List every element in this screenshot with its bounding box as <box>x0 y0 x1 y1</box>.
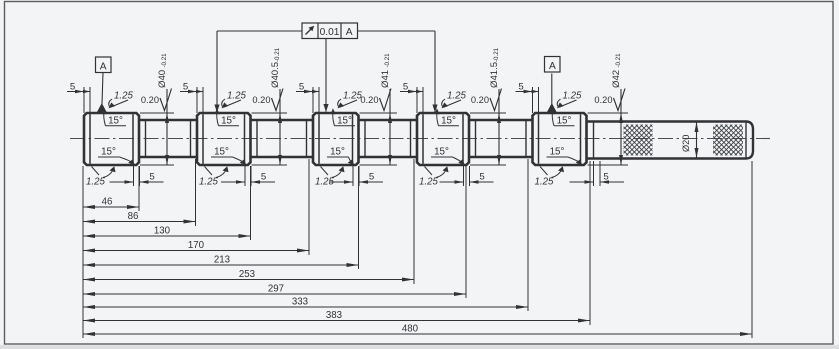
svg-text:1.25: 1.25 <box>535 177 554 188</box>
svg-text:Ø20: Ø20 <box>681 135 691 152</box>
svg-text:Ø41.5: Ø41.5 <box>489 62 500 88</box>
svg-text:297: 297 <box>268 284 284 295</box>
datum A frame (right) <box>545 57 561 73</box>
svg-text:0.20: 0.20 <box>252 95 270 105</box>
datum A filled triangle on journal 5 <box>547 103 557 112</box>
svg-text:Ø42: Ø42 <box>611 70 622 88</box>
svg-text:0.20: 0.20 <box>141 95 159 105</box>
svg-text:480: 480 <box>402 324 419 335</box>
svg-text:15°: 15° <box>214 147 229 158</box>
svg-text:253: 253 <box>239 269 255 280</box>
svg-text:5: 5 <box>403 82 408 93</box>
length dimension 333 <box>83 306 528 308</box>
journal 3 (bearing block) <box>313 113 359 165</box>
svg-text:-0.21: -0.21 <box>274 47 281 62</box>
svg-text:0.20: 0.20 <box>594 95 612 105</box>
chamfer length dim 5 at right of journal 3 <box>352 166 354 186</box>
journal 1 (bearing block) <box>84 113 139 165</box>
chamfer length dim 5 at right of journal 5 <box>593 161 595 186</box>
svg-text:5: 5 <box>299 82 304 93</box>
diameter label for journal 1 <box>157 53 168 88</box>
svg-text:-0.21: -0.21 <box>615 53 622 68</box>
chamfer length dim 5 at left of journal 1 <box>83 87 85 113</box>
diameter dimension line for journal 4 <box>470 112 506 114</box>
journal 4 (bearing block) <box>417 113 469 165</box>
svg-text:1.25: 1.25 <box>315 177 334 188</box>
diameter 20 dimension line <box>696 122 698 158</box>
svg-text:5: 5 <box>479 172 484 183</box>
diameter dimension line for journal 2 <box>252 112 288 114</box>
svg-text:5: 5 <box>369 172 374 183</box>
svg-text:5: 5 <box>518 82 523 93</box>
svg-text:15°: 15° <box>434 147 449 158</box>
svg-text:46: 46 <box>102 197 113 208</box>
FCF leader to journal 2 <box>217 30 302 32</box>
svg-text:15°: 15° <box>221 116 236 127</box>
journal 2 (bearing block) <box>197 113 251 165</box>
svg-text:-0.21: -0.21 <box>384 53 391 68</box>
svg-text:213: 213 <box>214 255 230 266</box>
svg-text:Ø40.5: Ø40.5 <box>270 62 281 88</box>
bottom page strip <box>0 345 839 349</box>
length dimension 297 <box>83 293 466 295</box>
chamfer length dim 5 at right of journal 2 <box>244 166 246 186</box>
small shaft section 1 between journals <box>139 119 197 121</box>
right end shaft (dia 20) outline <box>587 122 754 159</box>
length dimension 480 <box>83 333 752 335</box>
svg-text:15°: 15° <box>550 147 565 158</box>
diameter label for journal 5 <box>611 53 622 88</box>
svg-text:5: 5 <box>70 82 75 93</box>
datum A leader (left) <box>102 73 103 105</box>
length dimension 46 <box>83 206 139 208</box>
datum A leader (right) <box>551 74 553 105</box>
length dimension 170 <box>83 250 309 252</box>
svg-text:15°: 15° <box>330 147 345 158</box>
diameter 20 label <box>681 135 691 152</box>
length dimension 130 <box>83 235 251 237</box>
svg-text:A: A <box>100 61 107 72</box>
length dimension 253 <box>83 279 414 281</box>
diameter label for journal 4 <box>489 47 500 88</box>
svg-text:1.25: 1.25 <box>447 91 466 102</box>
svg-text:A: A <box>549 61 556 72</box>
svg-text:15°: 15° <box>337 116 352 127</box>
datum A filled triangle on journal 1 <box>97 103 107 112</box>
journal 5 (bearing block) <box>533 113 587 165</box>
svg-text:A: A <box>346 27 353 38</box>
left extension line from journal 1 face <box>82 166 84 338</box>
diameter dimension line for journal 3 <box>360 112 398 114</box>
svg-text:170: 170 <box>188 240 205 251</box>
diameter label for journal 3 <box>380 53 391 88</box>
svg-text:5: 5 <box>603 172 608 183</box>
chamfer length dim 5 at left of journal 5 <box>532 87 534 113</box>
diameter label for journal 2 <box>270 47 281 88</box>
FCF leader to journal 3 <box>325 39 327 112</box>
feature control frame runout 0.01 A <box>302 23 358 39</box>
svg-text:1.25: 1.25 <box>563 91 582 102</box>
svg-text:15°: 15° <box>557 116 572 127</box>
diameter dimension line for journal 5 <box>588 112 629 114</box>
small shaft section 2 between journals <box>251 119 314 121</box>
svg-text:0.20: 0.20 <box>360 95 378 105</box>
small shaft section 4 between journals <box>469 119 533 121</box>
chamfer length dim 5 at right of journal 4 <box>463 166 465 186</box>
svg-text:0.01: 0.01 <box>320 27 340 38</box>
length dimension 383 <box>83 320 590 322</box>
small shaft section 3 between journals <box>359 119 418 121</box>
datum A frame (left) <box>96 57 112 73</box>
svg-text:Ø40: Ø40 <box>157 70 168 88</box>
svg-text:-0.21: -0.21 <box>161 53 168 68</box>
chamfer length dim 5 at left of journal 3 <box>312 87 314 113</box>
chamfer length dim 5 at left of journal 2 <box>196 87 198 113</box>
svg-text:1.25: 1.25 <box>86 177 105 188</box>
length dimension 86 <box>83 221 196 223</box>
extension lines for length dimensions <box>138 166 140 211</box>
diameter dimension line for journal 1 <box>140 112 174 114</box>
svg-text:15°: 15° <box>441 116 456 127</box>
svg-text:5: 5 <box>183 82 188 93</box>
centerline of shaft <box>70 138 770 140</box>
svg-text:0.20: 0.20 <box>471 95 489 105</box>
svg-text:333: 333 <box>292 297 308 308</box>
svg-text:-0.21: -0.21 <box>493 47 500 62</box>
svg-text:383: 383 <box>326 310 342 321</box>
chamfer length dim 5 at left of journal 4 <box>416 87 418 113</box>
svg-text:Ø41: Ø41 <box>380 70 391 88</box>
svg-text:1.25: 1.25 <box>114 91 133 102</box>
svg-text:1.25: 1.25 <box>419 177 438 188</box>
svg-text:15°: 15° <box>108 116 123 127</box>
svg-text:5: 5 <box>149 172 154 183</box>
length dimension 213 <box>83 264 359 266</box>
svg-text:130: 130 <box>154 226 171 237</box>
svg-text:15°: 15° <box>101 147 116 158</box>
svg-text:86: 86 <box>128 211 139 222</box>
chamfer length dim 5 at right of journal 1 <box>133 166 135 186</box>
FCF leader to journal 4 <box>358 30 436 32</box>
svg-text:1.25: 1.25 <box>199 177 218 188</box>
svg-text:1.25: 1.25 <box>227 91 246 102</box>
svg-text:5: 5 <box>261 172 266 183</box>
